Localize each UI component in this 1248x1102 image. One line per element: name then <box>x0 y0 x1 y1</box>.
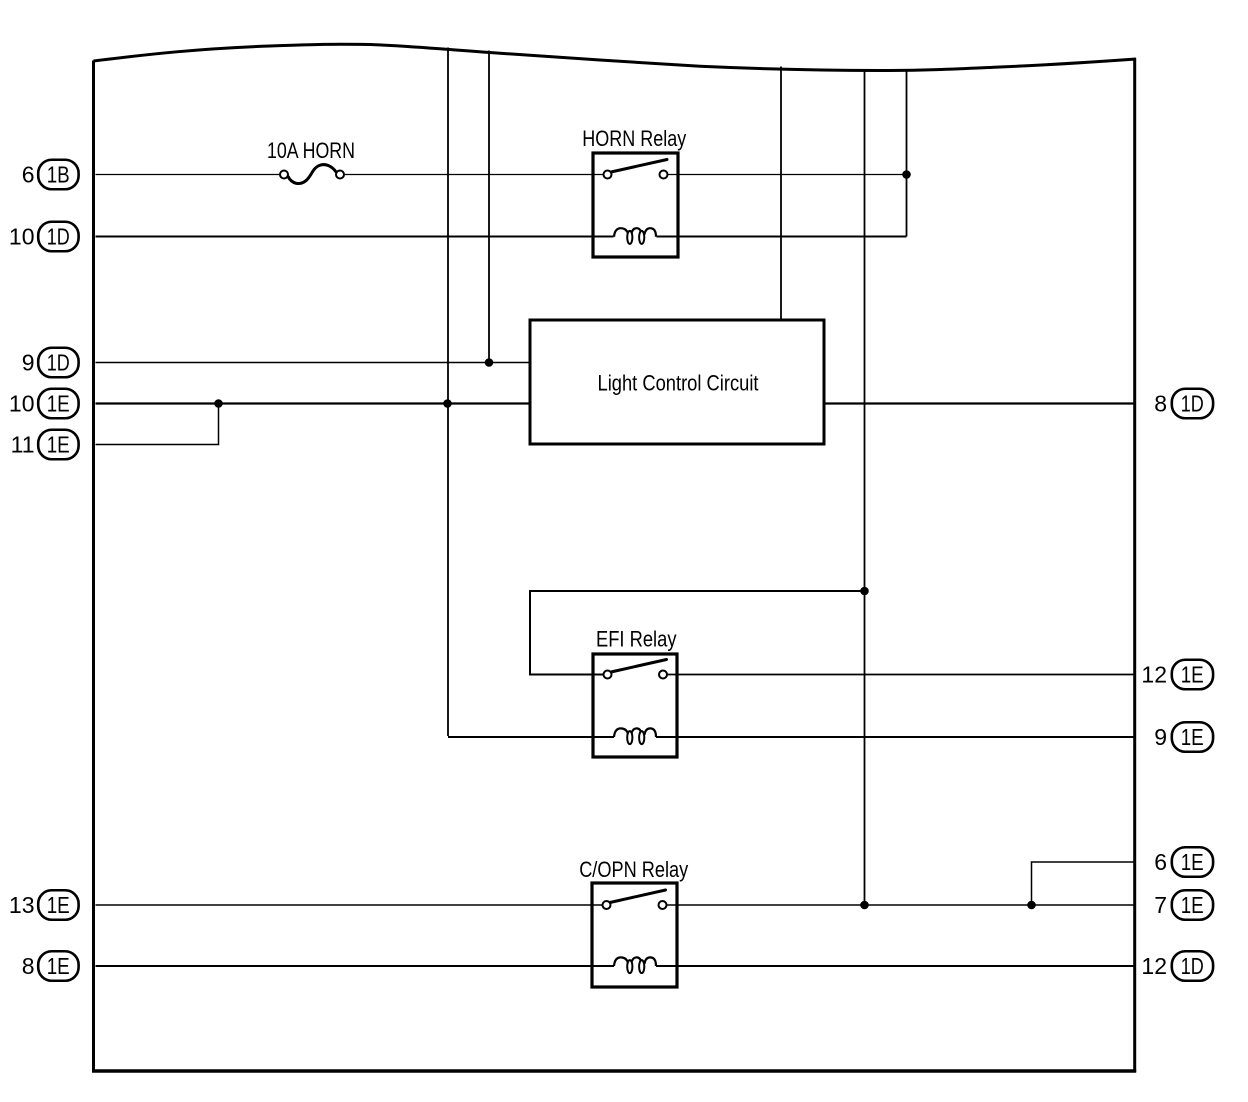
svg-text:9: 9 <box>1154 724 1167 750</box>
svg-text:1E: 1E <box>47 390 70 416</box>
svg-text:6: 6 <box>1154 849 1167 875</box>
svg-text:8: 8 <box>22 953 35 979</box>
svg-text:1B: 1B <box>47 161 70 187</box>
svg-text:1E: 1E <box>47 953 70 979</box>
svg-text:HORN Relay: HORN Relay <box>582 126 686 151</box>
svg-text:12: 12 <box>1141 953 1167 979</box>
svg-text:12: 12 <box>1141 661 1167 687</box>
svg-text:Light Control Circuit: Light Control Circuit <box>598 371 759 396</box>
svg-text:9: 9 <box>22 349 35 375</box>
svg-text:7: 7 <box>1154 892 1167 918</box>
svg-text:EFI Relay: EFI Relay <box>596 627 677 652</box>
svg-text:6: 6 <box>22 161 35 187</box>
svg-text:10A HORN: 10A HORN <box>267 138 355 163</box>
svg-text:10: 10 <box>9 390 35 416</box>
svg-text:13: 13 <box>9 892 35 918</box>
svg-text:1D: 1D <box>1181 390 1204 416</box>
svg-text:1E: 1E <box>1181 849 1204 875</box>
svg-text:1D: 1D <box>47 223 70 249</box>
svg-text:1E: 1E <box>47 431 70 457</box>
svg-text:1E: 1E <box>1181 661 1204 687</box>
svg-text:1E: 1E <box>47 892 70 918</box>
svg-text:10: 10 <box>9 223 35 249</box>
svg-text:11: 11 <box>11 431 35 457</box>
svg-text:1D: 1D <box>1181 953 1204 979</box>
svg-text:1D: 1D <box>47 349 70 375</box>
svg-text:C/OPN Relay: C/OPN Relay <box>579 857 688 882</box>
svg-text:8: 8 <box>1154 390 1167 416</box>
svg-text:1E: 1E <box>1181 724 1204 750</box>
svg-text:1E: 1E <box>1181 892 1204 918</box>
